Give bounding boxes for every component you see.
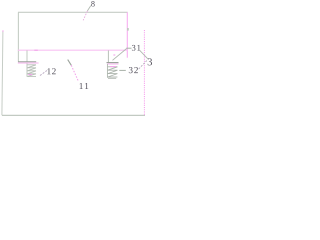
label 8 <box>91 1 94 7</box>
spring 32 (right) <box>107 64 117 78</box>
wire right bracket vertical <box>107 50 109 62</box>
label 31 leader diagonal <box>113 49 127 61</box>
wire top edge of plate 8 <box>18 11 128 13</box>
wire left border line with pink tip <box>2 31 3 116</box>
label 11 <box>80 83 83 89</box>
spring 12 pink fleck <box>28 74 32 76</box>
wire pink bottom line of plate <box>18 49 128 51</box>
label 11 leader (gray tip + pink dotted) <box>68 60 72 66</box>
wire left bracket foot bar <box>18 61 36 63</box>
leader 32 to 3 <box>139 61 147 69</box>
label 31 dash <box>126 47 131 49</box>
node gray dot near dotted line top <box>127 28 129 31</box>
wire left pink bar <box>18 62 39 64</box>
label 3 <box>148 58 152 65</box>
wire bottom border line <box>2 114 145 116</box>
wire left edge of plate 8 <box>17 12 19 62</box>
label 32 <box>129 67 133 73</box>
spring 32 pink fleck <box>110 66 116 68</box>
label 8 leader <box>87 6 90 11</box>
wire right edge of plate (pink) <box>126 12 128 57</box>
wire right pink bar <box>107 63 119 65</box>
leader 31 to 3 <box>140 51 148 59</box>
label 31 <box>132 45 136 51</box>
label 32 dash <box>119 69 126 71</box>
spring 12 (left) <box>27 64 36 77</box>
wire right bracket foot bar <box>107 62 119 64</box>
wire left bracket inner vertical <box>26 50 28 61</box>
wire bright pink dash on bottom line <box>34 49 38 51</box>
wire small pink dash right <box>113 54 115 56</box>
label 12 leader <box>40 71 47 76</box>
label 12 <box>47 68 50 74</box>
wire pink dotted vertical line (net 3) <box>143 30 145 115</box>
